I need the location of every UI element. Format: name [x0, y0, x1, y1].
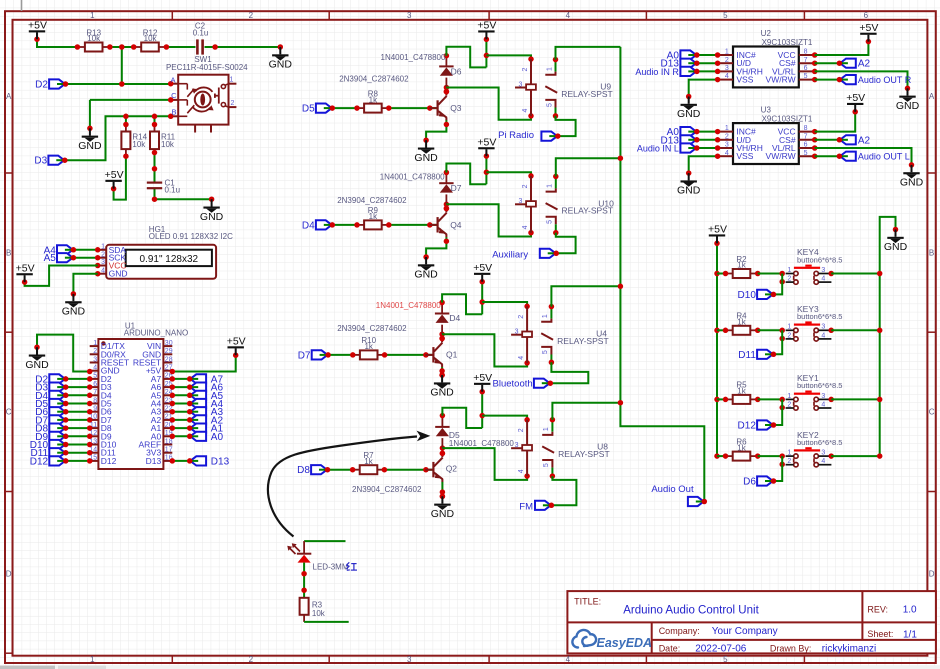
- svg-text:D11: D11: [738, 350, 756, 361]
- svg-text:1N4001_C478800: 1N4001_C478800: [449, 439, 514, 448]
- svg-text:+5V: +5V: [477, 136, 496, 148]
- svg-text:1N4001_C478800: 1N4001_C478800: [380, 172, 445, 181]
- svg-text:4: 4: [522, 109, 529, 113]
- svg-text:6: 6: [804, 65, 808, 72]
- svg-text:A: A: [6, 92, 12, 101]
- svg-text:1: 1: [787, 393, 791, 400]
- svg-text:1: 1: [787, 324, 791, 331]
- svg-text:D3: D3: [34, 156, 47, 167]
- svg-text:U3: U3: [761, 106, 772, 115]
- svg-text:4: 4: [101, 267, 105, 274]
- svg-text:X9C103SIZT1: X9C103SIZT1: [762, 38, 813, 47]
- svg-text:Audio OUT L: Audio OUT L: [858, 152, 910, 162]
- svg-text:3: 3: [725, 142, 729, 149]
- svg-text:+5V: +5V: [708, 224, 727, 236]
- svg-text:C: C: [929, 408, 935, 417]
- svg-text:Arduino Audio Control Unit: Arduino Audio Control Unit: [623, 604, 759, 616]
- svg-text:4: 4: [725, 73, 729, 80]
- svg-text:Company:: Company:: [659, 626, 700, 636]
- svg-text:GND: GND: [200, 211, 224, 223]
- svg-text:RELAY-SPST: RELAY-SPST: [561, 89, 613, 99]
- svg-text:5: 5: [543, 463, 550, 467]
- svg-text:D7: D7: [451, 183, 462, 193]
- svg-text:3: 3: [407, 11, 412, 20]
- svg-text:2: 2: [93, 348, 97, 355]
- svg-text:1: 1: [542, 314, 549, 318]
- svg-text:Audio IN R: Audio IN R: [635, 67, 679, 77]
- svg-text:1k: 1k: [364, 457, 373, 466]
- svg-text:2: 2: [725, 133, 729, 140]
- svg-text:2022-07-06: 2022-07-06: [695, 643, 747, 654]
- svg-text:1k: 1k: [737, 261, 746, 270]
- svg-text:VSS: VSS: [736, 151, 753, 161]
- svg-text:17: 17: [165, 447, 173, 454]
- svg-text:+5V: +5V: [105, 169, 124, 181]
- svg-text:+5V: +5V: [16, 262, 35, 274]
- svg-text:1: 1: [93, 340, 97, 347]
- svg-text:2: 2: [522, 68, 529, 72]
- svg-text:4: 4: [725, 150, 729, 157]
- svg-text:2: 2: [522, 184, 529, 188]
- svg-text:3: 3: [407, 655, 412, 664]
- svg-text:18: 18: [165, 438, 173, 445]
- svg-text:4: 4: [522, 225, 529, 229]
- svg-text:0.1u: 0.1u: [165, 186, 181, 195]
- svg-text:GND: GND: [431, 508, 455, 520]
- svg-text:D12: D12: [30, 456, 49, 467]
- svg-text:7: 7: [804, 133, 808, 140]
- svg-text:OLED 0.91 128X32 I2C: OLED 0.91 128X32 I2C: [149, 232, 233, 241]
- svg-text:1/1: 1/1: [903, 629, 917, 640]
- svg-text:FM: FM: [519, 501, 533, 512]
- svg-text:1N4001_C478800: 1N4001_C478800: [381, 53, 446, 62]
- svg-text:2: 2: [518, 315, 525, 319]
- svg-text:9: 9: [93, 406, 97, 413]
- svg-text:+5V: +5V: [859, 22, 878, 34]
- svg-text:29: 29: [165, 348, 173, 355]
- svg-text:2: 2: [249, 655, 254, 664]
- svg-text:1N4001_C478800: 1N4001_C478800: [376, 301, 441, 310]
- svg-text:4: 4: [93, 365, 97, 372]
- svg-text:Q3: Q3: [450, 103, 462, 113]
- svg-text:GND: GND: [25, 359, 49, 371]
- svg-text:button6*6*8.5: button6*6*8.5: [797, 255, 842, 264]
- svg-text:D12: D12: [738, 421, 757, 432]
- svg-text:A0: A0: [211, 432, 224, 443]
- svg-text:2: 2: [101, 251, 105, 258]
- svg-text:Audio OUT R: Audio OUT R: [858, 75, 912, 85]
- svg-text:Drawn By:: Drawn By:: [770, 643, 812, 653]
- svg-text:0.1u: 0.1u: [193, 29, 209, 38]
- svg-text:4: 4: [821, 332, 825, 339]
- svg-text:10k: 10k: [87, 34, 101, 43]
- svg-text:A2: A2: [858, 59, 871, 70]
- svg-text:GND: GND: [677, 185, 701, 197]
- svg-text:+5V: +5V: [473, 262, 492, 274]
- svg-text:+5V: +5V: [28, 19, 47, 31]
- svg-text:3: 3: [821, 450, 825, 457]
- svg-text:RELAY-SPST: RELAY-SPST: [562, 206, 614, 216]
- svg-text:GND: GND: [62, 306, 86, 318]
- svg-text:2: 2: [787, 276, 791, 283]
- svg-text:LED-3MM: LED-3MM: [313, 562, 349, 571]
- svg-text:2: 2: [231, 100, 235, 107]
- svg-text:3: 3: [821, 324, 825, 331]
- svg-text:30: 30: [165, 340, 173, 347]
- svg-text:GND: GND: [430, 387, 454, 399]
- svg-text:Audio IN L: Audio IN L: [637, 144, 679, 154]
- svg-text:8: 8: [804, 125, 808, 132]
- svg-text:+5V: +5V: [846, 92, 865, 104]
- svg-text:4: 4: [566, 655, 571, 664]
- svg-text:2: 2: [787, 401, 791, 408]
- svg-text:Bluetooth: Bluetooth: [493, 379, 533, 390]
- svg-text:1: 1: [725, 125, 729, 132]
- svg-text:3: 3: [725, 65, 729, 72]
- svg-text:2: 2: [725, 57, 729, 64]
- svg-text:2N3904_C2874602: 2N3904_C2874602: [352, 485, 422, 494]
- svg-text:D5: D5: [449, 430, 460, 440]
- svg-text:button6*6*8.5: button6*6*8.5: [797, 438, 842, 447]
- svg-text:10k: 10k: [312, 609, 326, 618]
- svg-text:B: B: [6, 248, 11, 257]
- svg-text:D2: D2: [35, 80, 48, 91]
- svg-text:+5V: +5V: [473, 372, 492, 384]
- svg-text:7: 7: [93, 389, 97, 396]
- svg-text:2: 2: [787, 458, 791, 465]
- svg-text:ARDUINO_NANO: ARDUINO_NANO: [124, 329, 188, 338]
- svg-text:Auxiliary: Auxiliary: [492, 249, 528, 260]
- svg-text:D13: D13: [211, 456, 230, 467]
- svg-text:B: B: [929, 248, 934, 257]
- svg-text:Your Company: Your Company: [712, 626, 778, 637]
- svg-text:2: 2: [787, 332, 791, 339]
- svg-text:Pi Radio: Pi Radio: [498, 130, 534, 141]
- svg-text:1: 1: [90, 11, 95, 20]
- svg-text:5: 5: [93, 373, 97, 380]
- svg-text:5: 5: [542, 350, 549, 354]
- svg-text:28: 28: [165, 356, 173, 363]
- svg-text:4: 4: [566, 11, 571, 20]
- svg-text:2N3904_C2874602: 2N3904_C2874602: [337, 324, 407, 333]
- svg-text:1k: 1k: [737, 387, 746, 396]
- svg-text:1k: 1k: [369, 212, 378, 221]
- svg-text:1: 1: [230, 77, 234, 84]
- svg-text:GND: GND: [900, 177, 924, 189]
- svg-text:D8: D8: [297, 465, 310, 476]
- svg-text:3: 3: [515, 442, 519, 449]
- svg-text:1: 1: [90, 655, 95, 664]
- svg-text:button6*6*8.5: button6*6*8.5: [797, 381, 842, 390]
- svg-text:Q2: Q2: [446, 463, 458, 473]
- svg-text:1: 1: [787, 267, 791, 274]
- svg-text:1k: 1k: [737, 443, 746, 452]
- svg-text:10k: 10k: [144, 34, 158, 43]
- svg-text:rickykimanzi: rickykimanzi: [822, 643, 876, 654]
- svg-text:5: 5: [804, 73, 808, 80]
- svg-text:D10: D10: [738, 290, 757, 301]
- svg-text:2N3904_C2874602: 2N3904_C2874602: [339, 75, 409, 84]
- svg-text:0.91" 128x32: 0.91" 128x32: [139, 254, 198, 265]
- svg-text:D6: D6: [743, 477, 756, 488]
- svg-text:C: C: [6, 408, 12, 417]
- svg-text:3: 3: [515, 329, 519, 336]
- svg-text:U2: U2: [761, 29, 772, 38]
- svg-text:5: 5: [547, 220, 554, 224]
- svg-text:1: 1: [546, 67, 553, 71]
- svg-text:GND: GND: [78, 140, 102, 152]
- svg-text:4: 4: [518, 469, 525, 473]
- svg-text:D4: D4: [449, 313, 460, 323]
- svg-text:VW/RW: VW/RW: [766, 75, 796, 85]
- svg-text:2N3904_C2874602: 2N3904_C2874602: [337, 196, 407, 205]
- svg-text:3: 3: [821, 267, 825, 274]
- svg-text:4: 4: [821, 276, 825, 283]
- svg-text:+5V: +5V: [227, 335, 246, 347]
- svg-text:6: 6: [804, 142, 808, 149]
- svg-text:D: D: [6, 569, 12, 578]
- svg-text:8: 8: [804, 49, 808, 56]
- svg-text:4: 4: [518, 356, 525, 360]
- svg-text:REV:: REV:: [867, 604, 888, 614]
- svg-text:GND: GND: [109, 269, 128, 279]
- svg-text:A5: A5: [44, 253, 57, 264]
- svg-text:GND: GND: [896, 100, 920, 112]
- svg-text:VW/RW: VW/RW: [766, 151, 796, 161]
- svg-text:Q1: Q1: [446, 349, 458, 359]
- svg-text:GND: GND: [414, 269, 438, 281]
- svg-text:1k: 1k: [737, 318, 746, 327]
- svg-text:RELAY-SPST: RELAY-SPST: [557, 336, 609, 346]
- svg-text:B: B: [171, 107, 176, 116]
- svg-text:VSS: VSS: [736, 75, 753, 85]
- svg-text:GND: GND: [677, 108, 701, 120]
- svg-text:8: 8: [93, 397, 97, 404]
- svg-text:RELAY-SPST: RELAY-SPST: [558, 449, 610, 459]
- svg-text:Date:: Date:: [659, 643, 681, 653]
- svg-text:3: 3: [821, 393, 825, 400]
- svg-text:5: 5: [723, 11, 728, 20]
- svg-text:1: 1: [787, 450, 791, 457]
- svg-text:button6*6*8.5: button6*6*8.5: [797, 312, 842, 321]
- svg-text:10k: 10k: [161, 140, 175, 149]
- svg-text:1: 1: [547, 184, 554, 188]
- svg-text:GND: GND: [414, 152, 438, 164]
- svg-text:D7: D7: [298, 350, 311, 361]
- svg-text:1.0: 1.0: [903, 605, 917, 616]
- svg-text:EasyEDA: EasyEDA: [597, 636, 653, 650]
- svg-text:D12: D12: [101, 456, 117, 466]
- svg-text:2: 2: [249, 11, 254, 20]
- svg-text:A: A: [929, 92, 935, 101]
- svg-text:4: 4: [821, 401, 825, 408]
- svg-text:3: 3: [93, 356, 97, 363]
- svg-text:GND: GND: [269, 59, 293, 71]
- svg-text:A2: A2: [858, 135, 871, 146]
- svg-text:6: 6: [864, 11, 869, 20]
- svg-text:Q4: Q4: [450, 220, 462, 230]
- svg-text:PEC11R-4015F-S0024: PEC11R-4015F-S0024: [166, 63, 248, 72]
- svg-text:3: 3: [518, 81, 522, 88]
- svg-text:5: 5: [723, 655, 728, 664]
- svg-text:Sheet:: Sheet:: [867, 629, 893, 639]
- svg-text:1: 1: [543, 427, 550, 431]
- svg-text:D: D: [929, 569, 935, 578]
- svg-text:A: A: [170, 75, 175, 84]
- svg-text:Audio Out: Audio Out: [651, 484, 694, 495]
- svg-text:10k: 10k: [132, 140, 146, 149]
- svg-text:7: 7: [804, 57, 808, 64]
- svg-text:GND: GND: [884, 241, 908, 253]
- svg-text:D6: D6: [451, 66, 462, 76]
- svg-text:TITLE:: TITLE:: [574, 596, 601, 606]
- svg-text:5: 5: [804, 150, 808, 157]
- svg-text:2: 2: [518, 428, 525, 432]
- svg-text:1k: 1k: [364, 342, 373, 351]
- svg-text:D13: D13: [146, 456, 162, 466]
- svg-text:1k: 1k: [369, 95, 378, 104]
- svg-text:6: 6: [93, 381, 97, 388]
- svg-text:4: 4: [821, 458, 825, 465]
- svg-text:3: 3: [518, 198, 522, 205]
- svg-text:X9C103SIZT1: X9C103SIZT1: [762, 114, 813, 123]
- svg-text:5: 5: [546, 103, 553, 107]
- svg-text:C: C: [171, 91, 177, 100]
- svg-text:+5V: +5V: [477, 20, 496, 32]
- svg-text:3: 3: [101, 259, 105, 266]
- svg-text:1: 1: [101, 244, 105, 251]
- svg-text:D4: D4: [302, 220, 315, 231]
- svg-text:1: 1: [725, 49, 729, 56]
- svg-text:D5: D5: [302, 104, 315, 115]
